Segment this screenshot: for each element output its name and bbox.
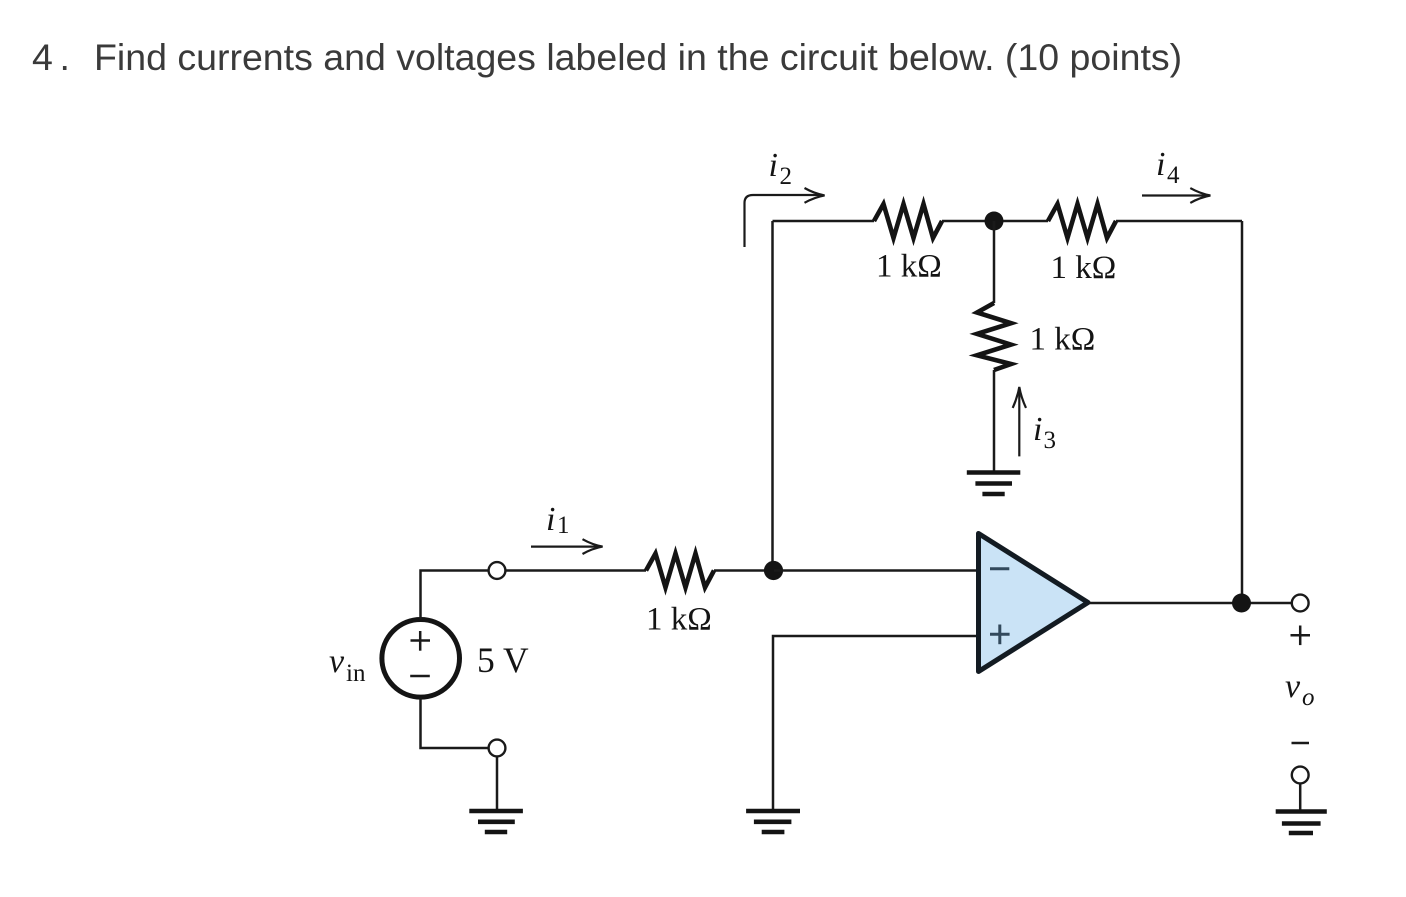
wire: lower terminal down to ground <box>496 757 499 811</box>
current arrow i4 <box>1142 194 1208 196</box>
svg-text:v: v <box>1285 668 1301 705</box>
svg-text:i: i <box>546 501 555 538</box>
current arrow i3 (upward) <box>1018 390 1020 457</box>
wire: non-inverting input left and down to ground <box>773 636 977 810</box>
ground G2 (below op-amp plus input) <box>746 811 800 832</box>
wire: stem from top node down to R3 <box>993 221 996 303</box>
output node junction dot <box>1232 594 1251 613</box>
wire: terminal to R1 <box>506 569 646 572</box>
ground G3 (below R3) <box>967 473 1021 495</box>
wire: inverting node to op-amp minus input <box>774 569 977 572</box>
svg-text:5 V: 5 V <box>477 640 529 680</box>
voltage source vin circle <box>382 620 460 698</box>
svg-text:Find currents and voltages lab: Find currents and voltages labeled in th… <box>94 36 1182 78</box>
wire: source bottom down, right to lower terminal <box>421 697 489 748</box>
wire: right vertical (top rail down to output node) <box>1241 221 1244 603</box>
output terminal open circle <box>1292 595 1309 612</box>
resistor R3 1kohm (vertical) <box>977 303 1011 370</box>
lower-left terminal open circle <box>489 740 506 757</box>
wire: lower output terminal to ground <box>1299 784 1302 811</box>
svg-text:.: . <box>60 36 70 78</box>
ground G1 (below source) <box>469 811 523 832</box>
svg-text:4: 4 <box>32 36 53 78</box>
wire: top rail right segment <box>1116 220 1242 223</box>
input terminal open circle <box>489 562 506 579</box>
minus sign inside source <box>410 675 430 678</box>
lower output terminal open circle <box>1292 767 1309 784</box>
svg-text:4: 4 <box>1167 162 1180 189</box>
current arrow i2 (bent indicator) <box>745 195 823 247</box>
wire: source top up and right to input terminal <box>421 571 489 620</box>
svg-text:2: 2 <box>780 163 793 190</box>
node junction dot (top, between R2/R4/R3) <box>985 212 1004 231</box>
op-amp minus input sign <box>990 567 1009 570</box>
op-amp plus input sign <box>990 625 1010 645</box>
wire: R1 to inverting node <box>714 569 774 572</box>
svg-text:1: 1 <box>557 512 570 539</box>
svg-text:1 kΩ: 1 kΩ <box>876 249 942 285</box>
svg-text:i: i <box>1156 146 1165 183</box>
svg-text:3: 3 <box>1044 427 1057 454</box>
resistor R2 1kohm (top left, horizontal) <box>874 204 942 238</box>
minus sign of vo <box>1292 742 1310 745</box>
resistor R4 1kohm (top right, horizontal) <box>1048 204 1116 238</box>
resistor R1 1kohm (input, horizontal) <box>646 554 714 588</box>
svg-text:1 kΩ: 1 kΩ <box>1030 322 1096 358</box>
plus sign inside source <box>411 631 431 651</box>
wire: op-amp output to output terminal <box>1089 602 1292 605</box>
op-amp U1 triangle <box>979 534 1089 672</box>
svg-text:i: i <box>1033 411 1042 448</box>
svg-text:in: in <box>346 660 366 687</box>
svg-text:v: v <box>329 643 345 680</box>
plus sign of vo <box>1291 626 1311 646</box>
svg-text:i: i <box>769 147 778 184</box>
wire: from R3 down to ground <box>993 370 996 471</box>
svg-text:o: o <box>1302 684 1315 711</box>
svg-text:1 kΩ: 1 kΩ <box>646 602 712 638</box>
wire: top rail middle segment <box>942 220 1048 223</box>
wire: feedback top-left vertical (inverting node up to top rail) <box>771 221 774 571</box>
inverting node junction dot <box>764 561 783 580</box>
current arrow i1 <box>531 545 600 547</box>
svg-text:1 kΩ: 1 kΩ <box>1051 250 1117 286</box>
ground G4 (output) <box>1276 812 1327 834</box>
wire: top rail left segment <box>773 220 875 223</box>
